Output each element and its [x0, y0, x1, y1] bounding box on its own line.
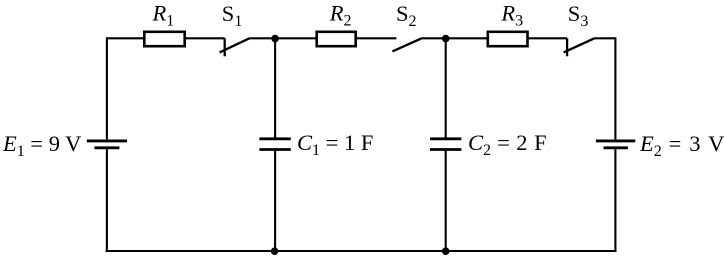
- resistor R2: [317, 32, 356, 46]
- svg-text:E1 = 9 V: E1 = 9 V: [2, 131, 81, 160]
- svg-text:C2 = 2 F: C2 = 2 F: [468, 130, 547, 159]
- battery E1: [87, 141, 127, 148]
- wire right vertical below E2: [614, 149, 616, 252]
- wire right vertical above E2: [614, 37, 616, 139]
- svg-text:R1: R1: [152, 1, 175, 30]
- wire R2 to S2: [357, 37, 397, 39]
- wire R3 to S3: [529, 37, 567, 39]
- capacitor C2: [430, 139, 461, 150]
- switch S2 (open): [392, 38, 421, 51]
- svg-text:R2: R2: [329, 1, 352, 30]
- battery E2: [596, 141, 635, 148]
- svg-text:S2: S2: [396, 1, 417, 30]
- switch S1 (closed): [220, 38, 250, 56]
- wire node B down to C2: [445, 38, 447, 137]
- resistor R1: [144, 32, 184, 46]
- resistor R3: [488, 32, 528, 46]
- svg-text:C1 = 1 F: C1 = 1 F: [297, 130, 373, 159]
- wire left vertical below E1: [106, 149, 108, 252]
- bottom junction dot under C1: [271, 247, 279, 255]
- switch S3 (closed): [564, 38, 595, 56]
- svg-text:E2 = 3 V: E2 = 3 V: [639, 131, 724, 160]
- wire S1 to R2 through node A: [249, 37, 315, 39]
- wire R1 to S1: [186, 37, 225, 39]
- svg-text:S1: S1: [222, 1, 243, 30]
- wire S2 to R3 through node B: [421, 37, 486, 39]
- svg-text:S3: S3: [568, 1, 589, 30]
- wire node A down to C1: [274, 38, 276, 137]
- node B junction dot: [442, 35, 450, 43]
- node A junction dot: [271, 35, 279, 43]
- wire C2 down to bottom rail: [445, 151, 447, 251]
- wire bottom rail: [106, 250, 617, 252]
- capacitor C1: [259, 139, 290, 150]
- wire left vertical above E1: [106, 37, 108, 139]
- wire top-left: E1 to R1: [107, 37, 144, 39]
- bottom junction dot under C2: [442, 247, 450, 255]
- svg-text:R3: R3: [500, 1, 523, 30]
- wire S3 to top-right corner: [594, 37, 615, 39]
- wire C1 down to bottom rail: [274, 151, 276, 251]
